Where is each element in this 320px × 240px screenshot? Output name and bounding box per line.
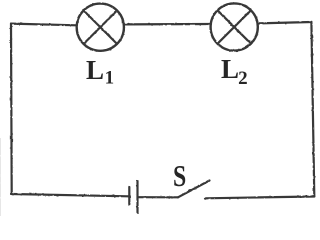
lamp L1 xyxy=(77,4,124,51)
lamp L2 xyxy=(211,3,258,50)
wire lamp L2 to top-right corner xyxy=(258,22,311,23)
svg-text:S: S xyxy=(173,159,186,192)
wire bottom-right to switch xyxy=(205,197,314,199)
battery negative plate (short) xyxy=(128,187,130,204)
wire left vertical xyxy=(10,24,13,194)
switch S blade xyxy=(178,181,210,198)
wire between lamps xyxy=(125,23,211,26)
wire switch to battery xyxy=(139,196,179,198)
wire top-left to lamp L1 xyxy=(11,24,77,26)
battery positive plate (long) xyxy=(136,181,138,212)
scan edge artifact xyxy=(0,138,2,216)
wire battery to bottom-left corner xyxy=(12,194,129,196)
svg-text:L2: L2 xyxy=(221,54,248,89)
svg-text:L1: L1 xyxy=(86,55,114,89)
wire right vertical xyxy=(311,22,314,197)
